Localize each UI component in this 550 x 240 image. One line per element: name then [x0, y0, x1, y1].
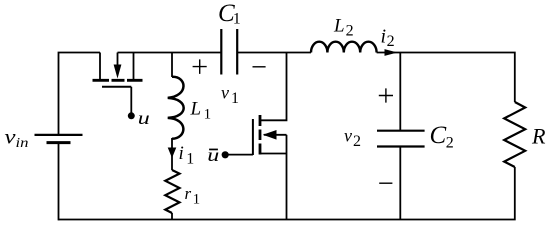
wire Q2 drain vertical [261, 53, 287, 121]
battery vin long plate [35, 134, 83, 136]
battery vin short plate [47, 141, 71, 144]
svg-text:i1: i1 [179, 143, 195, 168]
transistor Q2 body arrowhead [263, 130, 277, 140]
wire top rail middle segment [118, 52, 222, 54]
wire left branch lower [58, 143, 60, 221]
svg-text:vin: vin [5, 127, 29, 150]
inductor L1 lead top [171, 53, 173, 78]
resistor r1 [165, 170, 179, 213]
transistor Q2 gate lead [228, 154, 253, 156]
inductor L1 [168, 77, 184, 139]
svg-text:R: R [531, 123, 546, 148]
node dot u [128, 112, 135, 119]
wire C2 branch lower [399, 147, 401, 220]
wire r1-to-bottom [171, 213, 173, 220]
plus sign C2 [379, 88, 393, 102]
transistor Q1 gate bar [102, 86, 131, 88]
capacitor C2 bottom plate [377, 145, 425, 147]
transistor Q1 body line [117, 53, 119, 71]
minus sign C2 [379, 182, 392, 184]
transistor Q1 gate lead [130, 87, 132, 113]
svg-text:L1: L1 [190, 99, 212, 123]
transistor Q1 drain stub [99, 53, 101, 80]
wire Q2 source vertical [286, 135, 288, 220]
svg-text:v2: v2 [344, 125, 361, 149]
plus sign C1 [193, 59, 207, 74]
capacitor C1 right plate [236, 29, 238, 75]
capacitor C1 left plate [220, 29, 222, 75]
overbar of u-bar [209, 149, 218, 151]
current arrow i2 [385, 49, 398, 56]
wire top rail C1-to-L2 segment [237, 52, 311, 54]
wire C2 branch upper [399, 53, 401, 131]
svg-text:C2: C2 [430, 122, 454, 152]
node dot u-bar [222, 151, 229, 158]
svg-text:C1: C1 [218, 0, 241, 28]
transistor Q2 body lead [264, 134, 287, 136]
inductor L2 [311, 42, 377, 53]
transistor Q2 channel dashes [259, 115, 262, 155]
svg-text:i2: i2 [381, 26, 395, 51]
wire right branch lower + bottom rail [59, 167, 515, 220]
transistor Q2 gate bar [252, 119, 254, 155]
transistor Q1 source stub [133, 53, 135, 80]
resistor R [504, 102, 525, 167]
svg-text:u: u [207, 145, 219, 165]
wire top rail left segment + left branch upper [59, 53, 101, 135]
svg-text:u: u [138, 108, 150, 128]
transistor Q1 body arrowhead [114, 65, 122, 79]
wire L1-to-r1 [171, 138, 173, 170]
wire top rail right segment + right branch upper [377, 53, 515, 103]
transistor Q1 channel dashes [93, 79, 143, 82]
current arrow i1 [168, 148, 177, 159]
svg-text:r1: r1 [185, 184, 201, 207]
svg-text:L2: L2 [333, 16, 354, 40]
transistor Q2 source lead [261, 153, 287, 155]
capacitor C2 top plate [377, 130, 425, 132]
svg-text:v1: v1 [221, 83, 239, 107]
minus sign C1 [253, 66, 266, 68]
